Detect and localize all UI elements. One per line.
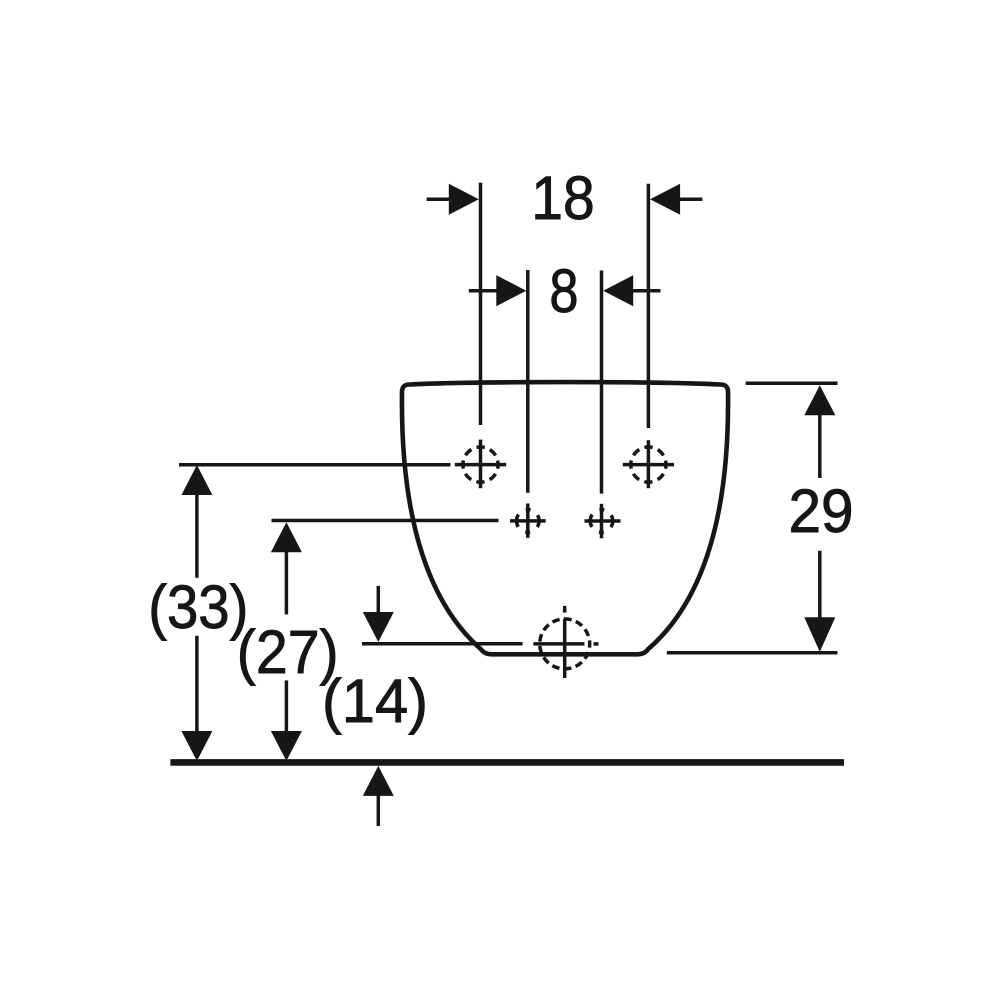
dim 8 left extension line xyxy=(526,270,530,493)
floor line xyxy=(170,759,844,766)
dim (14) top arrow (pointing down) xyxy=(377,586,381,614)
hole 5 crosshair horizontal xyxy=(533,642,584,646)
hole 1 dashed circle xyxy=(463,447,498,482)
dim (27) line with arrows xyxy=(285,551,289,614)
leader line to bottom hole center xyxy=(362,642,523,646)
hole 5 dashed circle xyxy=(540,619,590,669)
dim (14) bottom arrow (pointing up, below floor) xyxy=(377,793,381,826)
leader line to middle hole centers xyxy=(272,519,499,523)
svg-text:29: 29 xyxy=(788,477,853,546)
dim 18 right extension line xyxy=(647,184,651,428)
dim 18 left arrow xyxy=(427,197,455,201)
hole 2 crosshair xyxy=(623,463,674,467)
hole 4 dashed circle xyxy=(590,510,613,533)
bidet body outline xyxy=(402,382,728,654)
hole 3 dashed circle xyxy=(517,510,540,533)
dim 29 line with arrows xyxy=(818,414,822,478)
leader line to upper hole centers xyxy=(179,463,451,467)
dim 8 right arrow xyxy=(630,289,661,293)
dim 8 left arrow xyxy=(469,289,500,293)
dim 8 right extension line xyxy=(600,271,604,494)
svg-text:18: 18 xyxy=(531,164,594,233)
hole 4 crosshair xyxy=(585,519,621,523)
hole 1 crosshair xyxy=(455,463,506,467)
dim (33) line with arrows xyxy=(195,493,199,578)
svg-text:(33): (33) xyxy=(148,573,248,642)
dim 18 left extension line xyxy=(479,183,483,425)
svg-text:8: 8 xyxy=(549,257,578,326)
dim 29 bottom extension line xyxy=(667,651,838,655)
svg-text:(14): (14) xyxy=(322,667,428,736)
dim 18 right arrow xyxy=(674,197,702,201)
dim 29 top extension line xyxy=(746,382,838,386)
hole 5 crosshair vertical xyxy=(563,606,567,613)
hole 3 crosshair xyxy=(510,519,546,523)
hole 2 dashed circle xyxy=(631,447,666,482)
